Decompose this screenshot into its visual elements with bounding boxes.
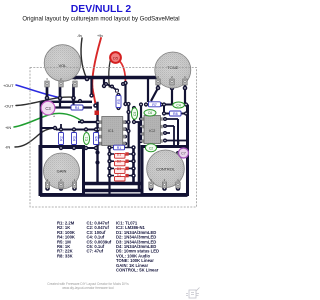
wire C4 row [164, 104, 188, 106]
diode D4 [115, 174, 126, 181]
wire x148 drop [147, 78, 149, 103]
wire mid column [103, 78, 105, 87]
wire x141 seg [140, 105, 142, 142]
svg-text:www.diy-layout-creator freewar: www.diy-layout-creator freeware tool [62, 286, 114, 290]
wire TONE lug2 down [171, 88, 173, 105]
svg-text:C1: C1 [84, 137, 88, 141]
resistor R6 [94, 133, 99, 145]
wire top bus [60, 76, 158, 79]
legend column 3 (semis and pots) [116, 221, 159, 273]
svg-text:C4: C4 [176, 103, 180, 107]
svg-text:R3: R3 [72, 136, 76, 141]
potentiometer TONE [155, 52, 191, 88]
pad D column [107, 145, 111, 149]
pad C7 [176, 151, 180, 155]
pad IC2 right [163, 117, 167, 121]
svg-text:D1: D1 [117, 153, 122, 157]
svg-text:CONTROL: 5K Linear: CONTROL: 5K Linear [116, 268, 159, 273]
svg-text:+IN: +IN [5, 125, 11, 130]
svg-text:IC1: IC1 [108, 128, 115, 133]
pad x125 [123, 81, 127, 85]
capacitor C1 [83, 133, 89, 145]
wire D5 pads cluster [106, 84, 117, 91]
pad holes [46, 78, 186, 189]
pad D5 cluster [104, 82, 108, 86]
svg-text:IC2: IC2 [149, 128, 156, 133]
wire inter-IC stub [134, 121, 141, 123]
op-amp IC1 (TL071) [97, 117, 126, 146]
wire x178 seg [177, 119, 179, 146]
wire -OUT (black) [16, 97, 75, 105]
pad mid [102, 84, 106, 88]
wire right border [186, 105, 189, 194]
wire -9v pad drop [90, 78, 92, 96]
pad -IN end [53, 126, 57, 130]
wire VOL lug1 down [72, 98, 74, 108]
wire x133 seg [132, 148, 135, 184]
resistor R7 [149, 102, 161, 107]
red square pad [95, 111, 100, 116]
wire C7 stub [178, 152, 188, 154]
wire IC2 right col [164, 119, 188, 141]
solder square [116, 90, 119, 93]
wire R8 row [164, 113, 188, 115]
wire VOL lug2 down [59, 98, 61, 108]
wire bottom border [40, 193, 188, 196]
wire +9v (red) [92, 38, 101, 105]
wire CONTROL box [142, 147, 188, 195]
wire mid column x97.5 [96, 102, 98, 184]
svg-text:R8: R8 [173, 112, 178, 116]
diode cathode squares [125, 152, 128, 177]
resistor R3 [72, 133, 77, 145]
diode D1 [115, 153, 126, 159]
svg-text:C7: C7 [181, 152, 186, 156]
wire -9v (black) [81, 38, 86, 78]
wire component row top bus [56, 129, 98, 131]
wire x138 seg [138, 122, 141, 191]
pad C4 row [162, 102, 166, 106]
resistor R4 [71, 105, 83, 110]
svg-text:CONTROL: CONTROL [156, 167, 175, 171]
wire D column left [108, 148, 110, 196]
pad R7 row [144, 102, 148, 106]
wire row riser x61 [60, 124, 62, 130]
pad component row bottom [59, 146, 63, 150]
pad green end [80, 119, 84, 123]
potentiometer VOL [44, 45, 81, 87]
svg-text:-OUT: -OUT [4, 104, 14, 109]
pad GAIN row [45, 186, 50, 191]
svg-text:+OUT: +OUT [3, 83, 14, 88]
diode D2 [115, 160, 126, 166]
svg-text:R6: R6 [94, 136, 98, 141]
svg-text:R4: R4 [75, 106, 80, 110]
wire x125 drop [124, 83, 126, 104]
diode D3 [115, 167, 126, 174]
wire D stubs [110, 148, 134, 176]
capacitor C6 [144, 110, 156, 116]
pad component row top [59, 127, 63, 131]
svg-text:R2: R2 [59, 136, 63, 141]
wire -IN (black) [15, 128, 54, 147]
pad mid-left column [95, 150, 99, 154]
wire bottom mid bar [83, 182, 142, 186]
capacitor C3 (electrolytic) [41, 101, 56, 118]
pad +9v [93, 103, 98, 108]
pad IC1 left pins [97, 120, 101, 124]
wire TONE lug3 diag [151, 88, 158, 101]
svg-text:C5: C5 [133, 112, 137, 116]
svg-text:D2: D2 [117, 160, 122, 164]
wire +OUT (blue) [16, 85, 60, 98]
LED D5 [110, 52, 121, 63]
svg-text:DEV/NULL 2: DEV/NULL 2 [71, 4, 132, 15]
svg-text:C3: C3 [45, 106, 51, 111]
pads [45, 77, 188, 191]
pad VOL row [45, 96, 50, 101]
wire GAIN box [40, 147, 84, 195]
pad TONE row [156, 86, 161, 91]
footer logo [186, 288, 200, 299]
svg-text:C2: C2 [149, 146, 153, 150]
svg-text:+9v: +9v [97, 34, 103, 38]
wire x134 seg [133, 108, 135, 122]
svg-text:-IN: -IN [5, 145, 10, 150]
wire TONE lug stems [158, 80, 185, 88]
amplifier IC2 (LM386) [142, 116, 163, 144]
wire VOL lug stems [47, 84, 74, 102]
wire TONE lug1 down [184, 88, 186, 105]
pad R8 row [162, 111, 166, 115]
wire VOL pads bus [41, 101, 92, 103]
wire x128 seg [127, 104, 129, 148]
capacitor C2 [145, 144, 156, 152]
svg-text:R5: R5 [117, 99, 121, 104]
svg-text:C6: C6 [148, 111, 152, 115]
svg-text:R1: R1 [117, 146, 122, 150]
potentiometer CONTROL [147, 150, 185, 188]
pad R5 [116, 93, 120, 97]
resistor R2 [59, 133, 64, 145]
wire -IN bus [41, 127, 56, 129]
trace network (navy) [40, 78, 188, 196]
svg-text:C7: 47uf: C7: 47uf [87, 249, 104, 254]
svg-text:D4: D4 [117, 174, 122, 178]
pad CONTROL row [149, 186, 154, 191]
svg-text:D5: D5 [113, 55, 119, 60]
capacitor C5 [131, 108, 137, 120]
pad IC1 right pins [123, 120, 127, 124]
wire D5 anode (red) [119, 61, 126, 84]
svg-text:Original layout by culturejam: Original layout by culturejam mod layout… [22, 16, 179, 22]
legend column 1 (resistor values) [57, 221, 75, 259]
resistor R8 [170, 111, 182, 116]
wire component row bottom bus [61, 147, 98, 149]
wire x164 seg [163, 105, 165, 114]
wire x174 seg [173, 126, 175, 146]
wire +IN (green) [14, 113, 82, 127]
wire D5 cathode (black) [109, 59, 111, 87]
capacitor C4 [173, 102, 185, 108]
wire H y107 [44, 106, 92, 108]
svg-text:-9v: -9v [77, 34, 82, 38]
capacitor C7 (electrolytic) [179, 148, 189, 158]
resistor R5 [116, 96, 121, 108]
potentiometer GAIN [44, 153, 80, 189]
wire green end bus [78, 121, 98, 123]
legend column 2 (capacitor values) [87, 221, 112, 254]
svg-text:GAIN: GAIN [57, 169, 67, 174]
board outline (enclosure) [30, 68, 197, 208]
resistor R1 [114, 145, 125, 150]
wire left border [40, 102, 43, 193]
wire bottom mid bar 2 [83, 189, 142, 193]
svg-text:D3: D3 [117, 167, 122, 171]
pad -9v [85, 77, 90, 82]
svg-text:R7: R7 [152, 103, 157, 107]
pad between ICs [126, 102, 130, 106]
svg-text:R8: 33K: R8: 33K [57, 253, 73, 258]
